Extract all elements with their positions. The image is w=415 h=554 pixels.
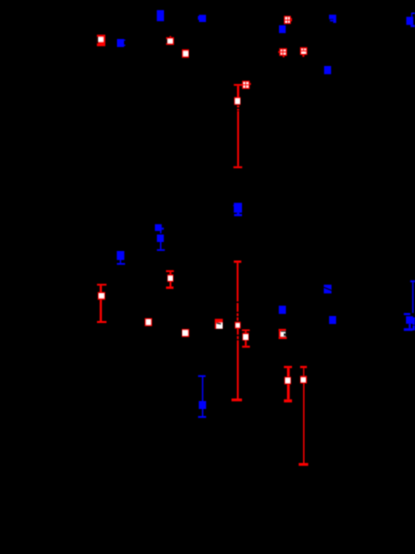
blue point B11 [233, 203, 242, 216]
blue point B10 [117, 251, 125, 265]
red point R6 [300, 47, 307, 57]
red point R7 [242, 81, 251, 89]
red point R5 [278, 48, 287, 57]
blue point B14 [329, 316, 336, 324]
red point R13 [215, 319, 223, 329]
red point R18 with long lower error bar [299, 366, 309, 466]
red point R8 with asymmetric error bar [233, 84, 242, 168]
red point R15 [242, 329, 250, 347]
red point R1 [97, 35, 105, 47]
red point R9 [166, 270, 174, 289]
red point R17 [284, 366, 292, 403]
red point R3 [182, 49, 189, 58]
blue point B9 [157, 235, 165, 251]
blue point B5 [329, 15, 336, 23]
blue point B3 [117, 39, 125, 47]
blue point B4 [279, 25, 286, 33]
blue point B2 [198, 15, 206, 22]
blue point B16 [279, 306, 286, 314]
blue point B15 cluster at right edge [404, 280, 415, 331]
blue point B8 [155, 224, 164, 233]
red point R4 [284, 16, 292, 24]
blue point B1 [157, 10, 164, 21]
red point R2 [166, 36, 174, 45]
red point R16 [279, 329, 287, 339]
blue point B7 [324, 66, 331, 74]
red point R10 [97, 284, 107, 323]
blue point B12 [198, 375, 206, 418]
red point R12 [182, 329, 189, 337]
red point R14 with long dashed error bar [232, 261, 243, 402]
blue point B6 [406, 13, 415, 28]
blue point B13 with slash [323, 285, 332, 294]
red point R11 [145, 318, 152, 326]
